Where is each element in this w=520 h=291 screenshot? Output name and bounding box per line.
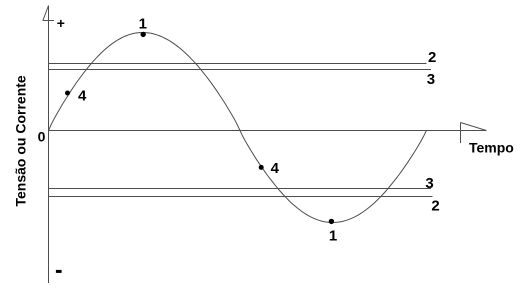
point 4 dot falling	[259, 165, 264, 170]
vertical axis arrowhead	[43, 6, 54, 21]
svg-text:4: 4	[78, 88, 87, 105]
svg-text:1: 1	[139, 15, 147, 32]
point 1 dot at positive peak	[141, 32, 146, 37]
level line 3 negative	[49, 188, 432, 190]
vertical axis (Tensão ou Corrente)	[48, 6, 50, 284]
svg-text:Tempo: Tempo	[469, 140, 514, 156]
level line 3 positive	[49, 69, 432, 71]
svg-text:+: +	[57, 15, 65, 31]
svg-text:1: 1	[329, 228, 337, 245]
point 4 dot rising	[65, 91, 70, 96]
svg-text:3: 3	[427, 71, 435, 88]
horizontal axis arrowhead	[461, 123, 487, 144]
level line 2 positive	[49, 63, 427, 65]
svg-text:Tensão ou Corrente: Tensão ou Corrente	[13, 75, 29, 206]
svg-text:0: 0	[38, 128, 46, 144]
horizontal axis (Tempo)	[49, 130, 487, 132]
point 1 dot at negative peak	[329, 219, 334, 224]
svg-text:2: 2	[428, 49, 436, 66]
level line 2 negative	[49, 196, 433, 198]
svg-text:3: 3	[425, 175, 433, 192]
svg-text:2: 2	[431, 198, 439, 215]
sine wave curve	[49, 33, 427, 223]
svg-text:4: 4	[271, 160, 280, 177]
minus sign label	[56, 270, 62, 273]
